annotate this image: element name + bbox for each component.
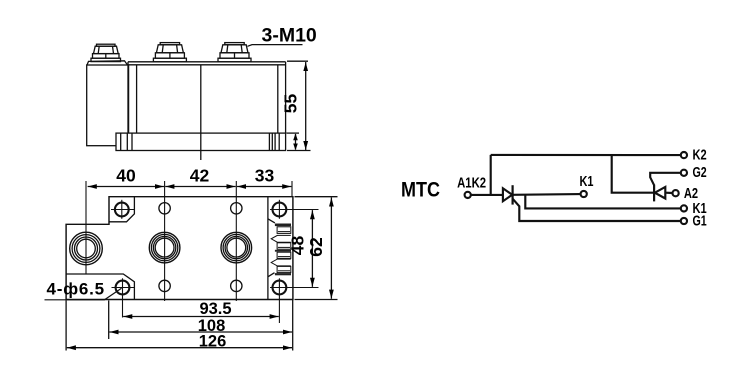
svg-text:A1K2: A1K2 <box>457 176 486 192</box>
wire A1K2 to thyristor 1 <box>471 194 503 196</box>
plan view: outline <box>66 197 293 300</box>
dimension 55 <box>287 61 311 150</box>
dimension 48 <box>311 210 313 287</box>
thyristor T2 (right) <box>650 173 681 202</box>
centerlines <box>86 181 292 301</box>
terminal G2 <box>681 170 687 176</box>
dimension 33 <box>237 186 292 188</box>
side view: main body <box>128 62 286 133</box>
side view: left terminal block <box>87 61 128 146</box>
dimension 108 <box>109 301 292 340</box>
svg-text:K1: K1 <box>580 174 594 190</box>
side view: stud bolt on left block <box>91 44 121 61</box>
plan view: terminal 1 circles <box>149 232 180 263</box>
wire gate G1 <box>513 199 681 221</box>
wire K1 tab branch <box>525 195 681 209</box>
plan view: left power terminal circles <box>70 232 103 265</box>
plan view: top-left mounting pad <box>109 197 134 222</box>
wire top rail <box>491 154 681 156</box>
svg-text:62: 62 <box>306 237 326 257</box>
svg-text:G2: G2 <box>693 165 707 181</box>
dimension 62 <box>295 197 338 300</box>
thyristor T1 (left) <box>503 185 513 204</box>
svg-text:93.5: 93.5 <box>199 300 231 318</box>
side view: center parting line <box>200 65 202 160</box>
plan view: mounting hole BL <box>112 278 135 317</box>
leader line 3-M10 <box>248 45 303 47</box>
side view: base plate <box>116 133 286 150</box>
svg-text:3-M10: 3-M10 <box>262 25 317 47</box>
svg-text:MTC: MTC <box>401 178 440 202</box>
svg-text:126: 126 <box>199 332 227 350</box>
terminal K1 (right tab) <box>681 205 687 211</box>
svg-text:55: 55 <box>281 94 301 114</box>
svg-text:K2: K2 <box>693 147 707 163</box>
svg-text:33: 33 <box>255 166 275 186</box>
dimension 42 <box>165 186 236 188</box>
plan view: control connector block <box>271 224 291 276</box>
wire junction down <box>612 155 654 193</box>
terminal A2 <box>673 190 679 196</box>
plan view: mounting hole TL <box>111 200 134 219</box>
svg-text:4-ф6.5: 4-ф6.5 <box>47 280 105 299</box>
plan view: mounting hole BR <box>270 278 319 323</box>
terminal K1 (middle) <box>581 191 587 197</box>
dimension 40 <box>88 186 164 188</box>
plan view: small holes <box>159 203 242 292</box>
terminal A1K2 <box>465 192 471 198</box>
svg-text:40: 40 <box>116 166 136 186</box>
svg-text:A2: A2 <box>684 186 698 202</box>
plan view: right column divider <box>268 197 275 300</box>
dimension 126 <box>66 300 293 351</box>
dimension 93.5 <box>123 316 279 318</box>
side view: stud bolt right <box>218 43 251 62</box>
leader 4-phi6.5 <box>45 288 122 300</box>
wire branch up <box>490 155 492 195</box>
plan view: mounting hole TR <box>270 200 319 219</box>
svg-text:G1: G1 <box>693 214 707 230</box>
plan view: terminal 2 circles <box>221 232 252 263</box>
terminal G1 <box>681 218 687 224</box>
terminal K2 <box>681 152 687 158</box>
svg-text:48: 48 <box>288 236 308 256</box>
wire cathode T1 to K1 <box>513 193 581 196</box>
svg-text:42: 42 <box>190 166 210 186</box>
side view: stud bolt middle <box>153 43 186 62</box>
plan view: bottom-left mounting pad <box>66 274 134 300</box>
